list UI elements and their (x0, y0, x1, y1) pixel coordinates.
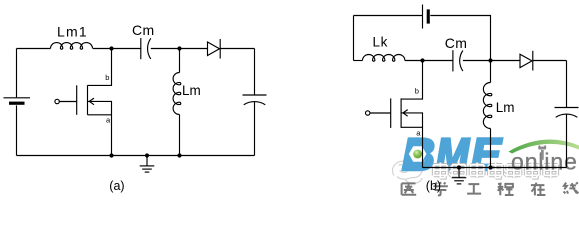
svg-text:(b): (b) (426, 179, 441, 193)
svg-text:(a): (a) (109, 179, 124, 193)
svg-text:Cm: Cm (132, 22, 155, 38)
svg-text:b: b (415, 86, 419, 95)
svg-text:Cm: Cm (445, 35, 468, 51)
svg-text:Lk: Lk (373, 34, 388, 49)
svg-text:Lm: Lm (496, 100, 515, 115)
svg-text:b: b (105, 73, 109, 82)
svg-text:Lm1: Lm1 (57, 24, 88, 40)
svg-text:Lm: Lm (182, 83, 201, 98)
svg-text:online: online (511, 149, 578, 175)
